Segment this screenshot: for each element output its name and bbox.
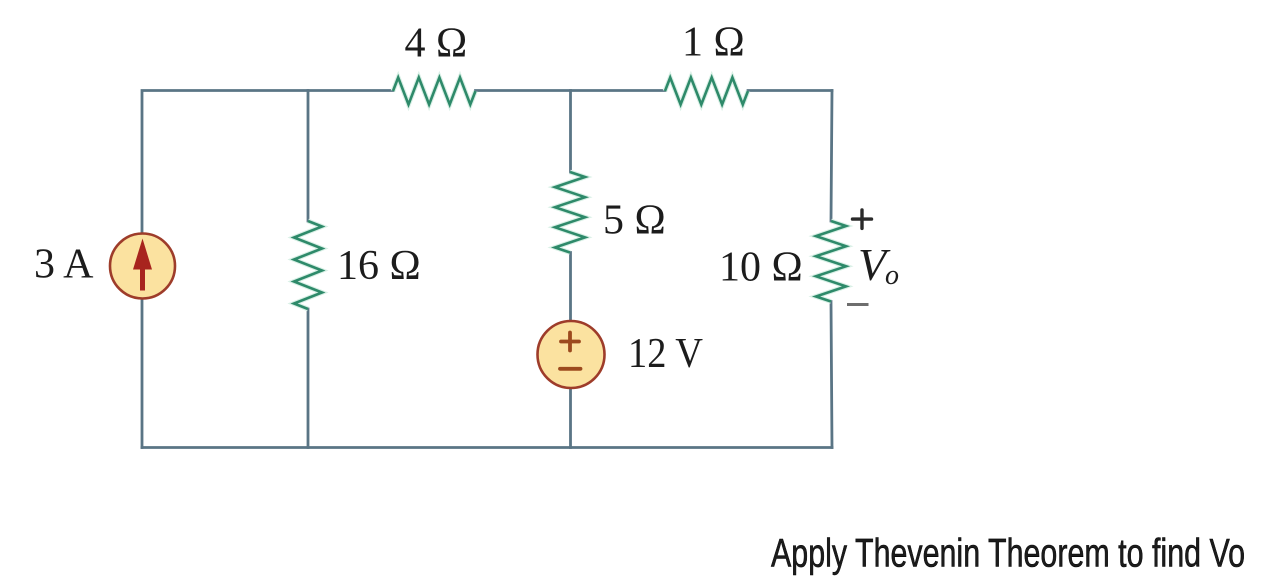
svg-text:1 Ω: 1 Ω [682, 19, 745, 65]
svg-text:3 A: 3 A [34, 241, 94, 287]
svg-text:12 V: 12 V [628, 331, 703, 377]
svg-text:Apply Thevenin Theorem to find: Apply Thevenin Theorem to find Vo [771, 532, 1245, 576]
svg-text:5 Ω: 5 Ω [603, 198, 666, 244]
svg-text:4 Ω: 4 Ω [405, 21, 468, 67]
svg-text:16 Ω: 16 Ω [337, 243, 421, 289]
svg-text:o: o [885, 260, 899, 291]
svg-text:10 Ω: 10 Ω [719, 244, 803, 290]
